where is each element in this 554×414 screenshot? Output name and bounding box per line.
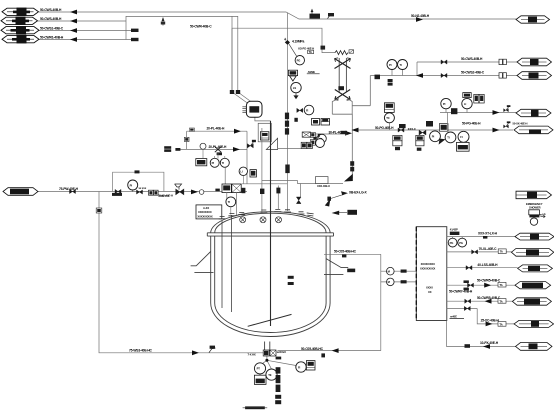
impeller blade <box>248 314 292 326</box>
tick on pot drain <box>260 189 264 194</box>
svg-text:ASME: ASME <box>308 70 316 74</box>
svg-text:m40E: m40E <box>450 314 457 318</box>
svg-text:LS: LS <box>293 86 297 90</box>
svg-text:TI: TI <box>222 161 225 165</box>
wire bottom outlet <box>266 351 268 360</box>
wire PG line y130 <box>356 129 513 131</box>
arrow on N2 line <box>416 17 423 22</box>
connector flag F3 <box>1 26 39 34</box>
wire row2 <box>447 251 516 253</box>
instrument circle row A <box>430 131 441 142</box>
connector flag F1 10-CWS <box>2 8 39 16</box>
dome nozzle flanges <box>219 209 314 218</box>
wire branch down x99 <box>99 192 263 353</box>
instrument circle x241 <box>239 167 247 184</box>
connector flag FR8 left pointing <box>511 249 553 257</box>
svg-text:FI: FI <box>298 365 301 369</box>
SECTION:TOPLEFT <box>37 12 516 92</box>
svg-text:XXXXXXXX: XXXXXXXX <box>198 210 212 214</box>
wire pot feed risers <box>232 16 252 103</box>
svg-text:50-C05-40B-HC: 50-C05-40B-HC <box>301 347 324 351</box>
wire row1 <box>447 236 515 238</box>
svg-text:FI: FI <box>460 135 463 139</box>
vessel walls <box>211 236 330 303</box>
vessel inner bottom head <box>215 303 326 333</box>
hose cross bottom <box>335 90 350 101</box>
vent boxes <box>301 142 312 148</box>
valve below PI <box>137 190 143 194</box>
valve on y62 <box>441 60 447 64</box>
tick labels under PI <box>388 79 393 86</box>
svg-text:KA: KA <box>317 135 321 139</box>
svg-text:50-CWS1-40B-C: 50-CWS1-40B-C <box>40 27 64 31</box>
svg-text:50-PG-40E-H: 50-PG-40E-H <box>375 126 394 130</box>
svg-text:A-XX: A-XX <box>203 206 209 210</box>
wire feed line y191.5 <box>38 191 247 193</box>
wire line1 CWS supply <box>39 12 516 19</box>
svg-text:PG: PG <box>450 241 454 245</box>
PSV funnel <box>290 76 297 81</box>
arrow charge into vessel dome <box>344 174 353 182</box>
instrument panel box <box>258 123 271 142</box>
small boxes pair left <box>310 132 315 145</box>
wire row4 <box>447 284 515 286</box>
connector flag F4 <box>2 35 39 44</box>
wire jacket manifold <box>380 254 382 350</box>
wire line4 <box>39 39 138 41</box>
arrow feed <box>191 190 198 195</box>
svg-text:PT: PT <box>257 367 261 371</box>
svg-text:XXXX: XXXX <box>426 286 433 290</box>
spectacle symbol y62 <box>499 59 506 64</box>
tick on x99 drop <box>96 208 102 213</box>
arrow PG to flag <box>493 128 500 133</box>
row4 arrow <box>484 283 491 288</box>
PG circle pair top <box>448 228 466 247</box>
tick PL line1 <box>189 128 194 131</box>
svg-text:PI: PI <box>389 63 392 67</box>
arrow on CWS return <box>416 73 423 78</box>
svg-text:20-PL-40E-H: 20-PL-40E-H <box>209 145 228 149</box>
instrument circle with valve <box>297 105 314 115</box>
valve at dome vent nozzle <box>296 197 301 204</box>
row5 TA box <box>498 299 506 304</box>
arrow into F3 <box>70 28 77 33</box>
thermowell tube <box>231 215 233 312</box>
tick labels on pot risers <box>230 90 240 94</box>
arrow PL line1 <box>234 129 241 134</box>
motor circle branch2 <box>387 278 407 286</box>
row6 TA box <box>498 322 506 327</box>
wire manifold branch 2 <box>381 281 417 283</box>
interlock box left of vessel <box>196 205 222 219</box>
svg-text:50-CWS-40B-H: 50-CWS-40B-H <box>40 17 62 21</box>
svg-text:XXX-40E-X: XXX-40E-X <box>317 184 330 188</box>
twin boxes below PG line 2 <box>416 135 424 150</box>
bottom nozzle stub <box>265 342 270 352</box>
svg-text:TI: TI <box>447 136 450 140</box>
vertical line label 40E on charge line <box>350 161 354 171</box>
small box beside x241 <box>250 170 256 177</box>
connector flag FR13 <box>516 343 553 351</box>
svg-text:XB-EX-LG-X: XB-EX-LG-X <box>349 190 367 194</box>
diagonal valve before FR5 <box>503 121 510 128</box>
wire row3 <box>447 267 518 269</box>
instrument circle LS <box>291 82 301 99</box>
twin boxes beside <box>474 94 484 103</box>
tick label line4 end <box>131 38 139 41</box>
connector flag FR5 <box>514 126 553 134</box>
vessel inner dome <box>215 213 326 233</box>
label ASME underlined <box>307 70 320 74</box>
svg-text:XX: XX <box>428 290 432 294</box>
svg-text:4.19MPa: 4.19MPa <box>292 40 304 44</box>
arrow PL line2 <box>233 147 240 152</box>
instrument circle PI in package <box>128 180 138 192</box>
dark blob on PG line right <box>426 121 433 127</box>
hose clamp blob <box>338 86 344 90</box>
support lug left <box>191 252 214 273</box>
instrument circle pair <box>210 158 219 167</box>
svg-text:50-CWR-40B-C: 50-CWR-40B-C <box>190 24 212 28</box>
wire drop x447.5 <box>447 113 449 132</box>
small vent symbol on bottom run <box>209 346 216 353</box>
underlined 40E label <box>450 314 465 318</box>
instrument circle below 30-PL <box>318 134 327 143</box>
SECTION:VESSEL <box>207 212 333 351</box>
connector flag F2 <box>1 17 38 25</box>
box on x186 drop <box>184 137 189 141</box>
instrument PI circle A <box>387 60 397 70</box>
wire vent branch from riser <box>242 181 343 197</box>
VFD panel rectangle <box>416 227 447 321</box>
small box after spring <box>349 50 354 53</box>
svg-text:TA: TA <box>309 50 312 54</box>
twin boxes on feed line <box>149 190 159 195</box>
wire PL line1 <box>187 131 247 149</box>
svg-text:XXX-XT-LX-H: XXX-XT-LX-H <box>478 232 498 236</box>
arrow into F2 <box>70 19 77 24</box>
wire instrument stem x389 <box>388 123 390 130</box>
box with X above <box>302 132 310 137</box>
svg-text:XXXXXXXXX: XXXXXXXXX <box>420 267 436 271</box>
wire CWS jacket return y75.5 <box>370 75 517 77</box>
instrument boxes above dome left <box>222 184 241 193</box>
inlet leader arrow right of dome <box>332 210 357 215</box>
spectacle symbol y75.5 <box>499 73 506 78</box>
svg-text:PI: PI <box>443 102 446 106</box>
dark cluster left <box>112 189 122 196</box>
small circle above <box>200 143 206 158</box>
svg-text:xxXXxX: xxXXxX <box>277 350 287 354</box>
tick at return line corner <box>375 75 381 80</box>
connector flag FR10 <box>515 282 551 289</box>
connector flag FR12 <box>514 320 554 327</box>
wire PG pair stems <box>453 237 463 239</box>
svg-text:TA: TA <box>499 322 502 326</box>
wire vessel vent riser x288 <box>286 13 288 212</box>
instrument circle bottom C <box>296 362 306 372</box>
emergency shower station <box>529 210 546 226</box>
svg-text:20-XX-40E-H: 20-XX-40E-H <box>158 194 173 198</box>
svg-text:50-N2-40B-H: 50-N2-40B-H <box>411 14 430 18</box>
svg-text:50-C05-40B-HC: 50-C05-40B-HC <box>334 250 357 254</box>
tick on feed line <box>215 189 219 192</box>
svg-text:25-XC-40E-H: 25-XC-40E-H <box>481 319 500 323</box>
svg-text:XXXXXXXXX: XXXXXXXXX <box>197 214 213 218</box>
stems <box>215 152 225 159</box>
arrow y113 to flag <box>493 110 500 115</box>
small box on PG line <box>398 124 406 132</box>
box below circle row C <box>457 142 470 151</box>
svg-text:PG: PG <box>297 59 301 63</box>
instrument PI circle B <box>398 60 408 70</box>
dark blocks below <box>275 395 281 404</box>
svg-text:50-PG-40E-H: 50-PG-40E-H <box>462 122 481 126</box>
connector flag FR2 <box>517 58 552 66</box>
flame arrestor on vent <box>316 177 329 184</box>
control valve on PL line2 <box>215 147 222 156</box>
svg-text:TI: TI <box>228 200 231 204</box>
TA blob <box>318 134 324 137</box>
instrument circle above y113 line <box>441 98 451 108</box>
row6 arrow <box>486 322 493 327</box>
row4 TA box <box>498 282 506 287</box>
wire row6 <box>447 309 514 324</box>
wire manifold branch 1 <box>381 270 417 272</box>
wire box cluster to dome <box>227 193 237 215</box>
tick label line3 end <box>131 29 139 32</box>
svg-text:50-CWR1-40B-H: 50-CWR1-40B-H <box>40 36 64 40</box>
dark tick on CWR drop <box>321 46 326 50</box>
wire pot drain and dip tube <box>255 116 271 121</box>
box below circle A <box>254 374 266 384</box>
svg-text:XXXX/XXXX: XXXX/XXXX <box>421 262 435 266</box>
valve on feed line <box>70 189 76 193</box>
tick bottom transfer <box>321 353 325 357</box>
svg-text:PG: PG <box>459 241 463 245</box>
vertical pipe label 1 <box>285 113 289 135</box>
start ticks PL line2 <box>164 146 180 152</box>
instrument circle row C <box>458 131 469 142</box>
svg-text:7-X HX: 7-X HX <box>248 353 256 357</box>
nozzle marks N labels inside <box>288 276 294 285</box>
connector flag FR1 top right <box>516 16 550 23</box>
tick left of arrow <box>341 131 348 134</box>
wire riser to sparger <box>261 128 263 214</box>
valve on y75.5 <box>441 73 447 77</box>
wire row7 <box>446 321 515 347</box>
vent triangle <box>266 138 277 149</box>
tick on boundary top <box>135 170 140 173</box>
svg-text:LI: LI <box>464 102 467 106</box>
dip tube left <box>221 221 223 309</box>
svg-text:TC: TC <box>386 116 390 120</box>
dark valve on utility line <box>451 108 457 114</box>
svg-text:TA: TA <box>499 283 502 287</box>
svg-text:50-CWS-40B-H: 50-CWS-40B-H <box>40 8 62 12</box>
svg-text:70-XL-40E-C: 70-XL-40E-C <box>479 247 498 251</box>
svg-text:41/42P: 41/42P <box>450 228 458 232</box>
wire vent line y148.5 <box>278 148 302 150</box>
row3 valve <box>466 266 472 270</box>
PSV box <box>288 70 297 75</box>
instrument PG circle <box>289 44 305 65</box>
svg-text:KXX-X: KXX-X <box>408 127 416 131</box>
support lug right <box>324 259 348 275</box>
vessel outer dome <box>211 212 330 233</box>
svg-text:TA: TA <box>499 299 502 303</box>
svg-text:50-CWS-40B-H: 50-CWS-40B-H <box>461 57 483 61</box>
box right of circle C <box>306 361 315 370</box>
junction dot <box>265 359 268 362</box>
svg-text:TI: TI <box>400 63 403 67</box>
SECTION:MIDLEFT <box>38 16 271 352</box>
wire riser x247 <box>246 131 248 184</box>
TA box <box>308 50 314 54</box>
vessel outer bottom head <box>211 303 330 337</box>
svg-text:xx xxx: xx xxx <box>139 187 147 190</box>
wire CWS jacket supply y62 <box>417 62 517 76</box>
dome nozzle stub x278 <box>276 186 280 211</box>
arrow bottom transfer <box>332 348 339 353</box>
connector flag FR11 left pointing <box>512 298 551 305</box>
agitator shaft <box>270 121 272 326</box>
package unit boundary box <box>113 172 164 191</box>
twin boxes below PG line 1 <box>393 135 402 150</box>
charge bell hopper <box>332 76 370 179</box>
row7 arrow <box>483 344 490 349</box>
dark valve on PG line <box>419 130 426 135</box>
spring rupture element on CWR <box>335 51 348 55</box>
wire x225 drop to feed line <box>224 167 226 191</box>
vertical pipe label 2 <box>285 165 289 174</box>
svg-text:FI: FI <box>306 108 309 112</box>
arrow bottom run <box>192 350 199 355</box>
bottom valve block <box>263 350 276 356</box>
svg-text:LI: LI <box>240 170 243 174</box>
small circle on feed line <box>199 190 204 195</box>
svg-text:75-WS3-40E-HC: 75-WS3-40E-HC <box>129 348 153 352</box>
wire y113.5 utility line <box>440 109 516 113</box>
svg-text:50-CWS2-40B-C: 50-CWS2-40B-C <box>461 71 485 75</box>
control valve actuator circle <box>384 103 394 123</box>
instrument circle bottom B <box>266 369 277 380</box>
svg-text:SHOWER: SHOWER <box>529 206 541 210</box>
funnel above feed line <box>175 184 182 190</box>
motor circle branch1 <box>387 267 407 275</box>
svg-text:PI: PI <box>130 183 133 187</box>
svg-text:40-LSS-40B-H: 40-LSS-40B-H <box>477 263 498 267</box>
wire line3 <box>39 30 138 32</box>
row4 valve <box>468 283 474 287</box>
instrument circle above dome <box>226 197 236 215</box>
arrow into charge drop <box>345 131 352 136</box>
wire bottom transfer line <box>278 350 381 352</box>
SECTION:TOPRIGHT <box>287 13 517 212</box>
wire row5 <box>447 300 517 302</box>
arrow into F4 <box>70 37 77 42</box>
diag valve between circles <box>439 139 446 145</box>
vessel flange lines <box>207 233 333 236</box>
connector flag FR3 <box>517 72 552 80</box>
wire 30-PL line <box>308 133 347 135</box>
svg-text:EMERGENCY: EMERGENCY <box>526 202 543 206</box>
row6 valve <box>464 306 470 310</box>
flexible hose to charge bell <box>339 58 346 92</box>
small instrument on N2 line <box>328 13 335 19</box>
wire PL line2 <box>176 148 248 150</box>
blob under valve block <box>276 357 282 360</box>
SECTION:BOTTOM <box>262 351 381 369</box>
row1 tick <box>483 236 487 239</box>
vertical pipe label bottom <box>276 367 281 392</box>
svg-text:PI: PI <box>212 161 215 165</box>
seal pot <box>242 101 262 117</box>
arrow into F1 <box>70 10 77 15</box>
instrument circle with cap above y113 <box>462 93 472 109</box>
svg-text:mAP: mAP <box>540 212 546 216</box>
svg-text:50-CWR5-40B-C: 50-CWR5-40B-C <box>477 296 501 300</box>
wire junction branches <box>262 360 297 369</box>
grade bar <box>243 406 268 409</box>
vent stub on header <box>161 17 165 26</box>
diagonal valve before FR4 <box>503 105 510 112</box>
svg-text:20-PL-40E-H: 20-PL-40E-H <box>207 127 226 131</box>
N2 source blob <box>310 9 321 19</box>
row5 valve <box>465 299 471 303</box>
row2 TA box <box>498 249 506 254</box>
instrument circle row B <box>445 132 456 143</box>
svg-text:50-CWR5-40B-C: 50-CWR5-40B-C <box>477 279 501 283</box>
connector flag FR6 emergency <box>516 191 552 199</box>
instrument circle bottom A <box>254 363 265 374</box>
wire PI stems <box>392 70 403 76</box>
leader label level gauge <box>325 190 368 206</box>
connector flag FR4 <box>516 109 551 116</box>
svg-text:TE: TE <box>268 373 272 377</box>
lug label 40E <box>347 269 355 273</box>
rupture diamond 4.19MPa <box>284 38 290 45</box>
svg-text:50-XX-40E-H: 50-XX-40E-H <box>513 121 528 125</box>
instrument K circle <box>313 135 324 148</box>
riser tick x243 <box>242 188 246 193</box>
row2 valve <box>472 250 478 254</box>
instrument box cluster left of charge line <box>312 119 330 126</box>
wire CWR header to condenser <box>232 28 335 92</box>
row4 ticks <box>464 280 469 290</box>
small E tick <box>294 118 297 122</box>
dark globe valve on feed line <box>176 189 184 195</box>
sparger circle 3 <box>276 217 282 223</box>
row5 arrow <box>485 299 492 304</box>
dark box above circle row <box>439 124 448 132</box>
svg-text:50-CWR7-40B-H: 50-CWR7-40B-H <box>449 290 473 294</box>
connector flag FR9 <box>518 265 553 272</box>
valve on charge riser <box>247 140 256 148</box>
arrow into charge bell from PG line <box>352 128 359 133</box>
hose cross top <box>335 58 351 69</box>
sparger circle 2 <box>260 217 266 223</box>
TA box left <box>196 159 207 166</box>
sparger circle 1 <box>240 217 246 223</box>
jacket nozzle right <box>324 250 381 258</box>
connector flag FMID <box>3 188 38 196</box>
svg-text:PI: PI <box>432 135 435 139</box>
connector flag FR7 <box>515 233 554 240</box>
svg-text:TA: TA <box>500 250 503 254</box>
wire line2 CWR return loop <box>37 16 238 92</box>
